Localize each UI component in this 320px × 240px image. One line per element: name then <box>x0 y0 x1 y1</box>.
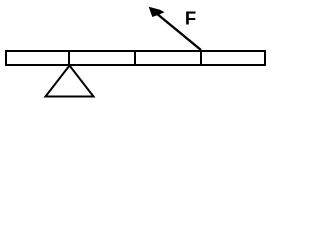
svg-text:F: F <box>185 8 196 29</box>
